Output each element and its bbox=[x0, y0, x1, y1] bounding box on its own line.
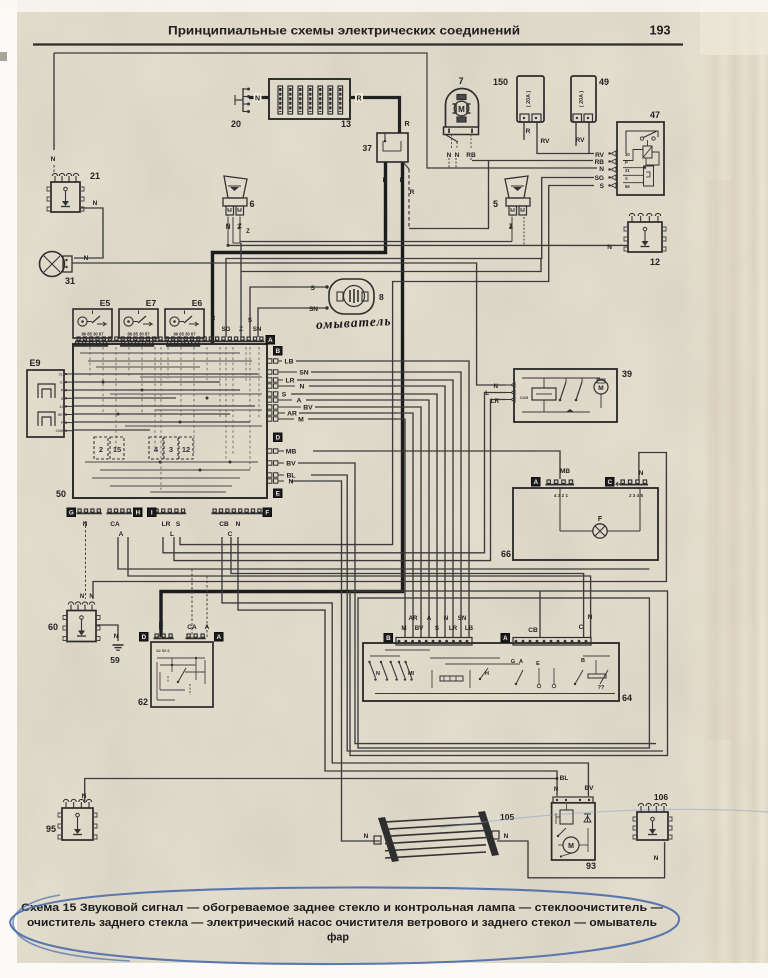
svg-text:N: N bbox=[226, 224, 230, 230]
marker D right bbox=[274, 433, 283, 442]
svg-text:SG: SG bbox=[222, 326, 231, 333]
svg-text:COM: COM bbox=[56, 429, 64, 433]
svg-text:AR: AR bbox=[287, 411, 297, 418]
wire loop inner around panel 64 bbox=[358, 598, 649, 748]
wire RV fuses to relay unit 47 bbox=[524, 122, 605, 159]
marker H bbox=[134, 508, 143, 517]
header title bbox=[168, 24, 520, 38]
svg-text:6: 6 bbox=[249, 199, 254, 209]
svg-text:39: 39 bbox=[622, 369, 632, 379]
svg-text:B: B bbox=[386, 635, 391, 642]
svg-text:Z: Z bbox=[509, 224, 513, 230]
svg-text:BV: BV bbox=[286, 461, 296, 468]
wire BV box 50 to panel 64 bbox=[315, 407, 421, 637]
svg-text:COM: COM bbox=[520, 396, 528, 400]
svg-text:62 52 6: 62 52 6 bbox=[156, 648, 170, 653]
wire N lamp 31 to wiper unit 39 bbox=[72, 255, 506, 390]
wire N box 50 to module 60 dashed bbox=[85, 521, 87, 599]
box 50 internal wiring bbox=[73, 347, 262, 492]
heater 66 N connector bbox=[616, 480, 648, 498]
svg-text:S: S bbox=[176, 521, 181, 528]
svg-text:31: 31 bbox=[65, 276, 75, 286]
svg-text:N: N bbox=[599, 166, 604, 173]
svg-text:N: N bbox=[255, 96, 260, 103]
svg-text:RV: RV bbox=[576, 137, 586, 144]
marker C heater bbox=[606, 478, 615, 487]
svg-text:60: 60 bbox=[48, 622, 58, 632]
svg-text:A: A bbox=[268, 337, 273, 344]
svg-text:M: M bbox=[568, 843, 574, 850]
wire N module 21 to lamp 31 bbox=[74, 200, 103, 258]
svg-text:56: 56 bbox=[625, 184, 630, 189]
wire R thick relay 37 to unit 62 bbox=[159, 162, 415, 637]
svg-text:M: M bbox=[598, 385, 603, 392]
wire BV box 50 down along panel 64 bbox=[298, 463, 656, 792]
svg-text:R: R bbox=[383, 177, 388, 184]
svg-text:15: 15 bbox=[113, 445, 121, 454]
wire loop outer around panel 64 bbox=[350, 591, 668, 756]
svg-text:21: 21 bbox=[90, 171, 100, 181]
switch 5 bbox=[493, 176, 530, 230]
svg-text:N: N bbox=[607, 244, 612, 251]
svg-text:193: 193 bbox=[649, 24, 670, 38]
svg-text:B: B bbox=[276, 348, 281, 355]
svg-text:CA: CA bbox=[187, 624, 197, 631]
svg-text:105: 105 bbox=[500, 812, 514, 822]
svg-text:E9: E9 bbox=[29, 358, 40, 368]
svg-text:M: M bbox=[458, 105, 465, 114]
svg-text:N: N bbox=[89, 594, 93, 600]
horn 7 bbox=[444, 76, 479, 159]
svg-text:MI: MI bbox=[408, 671, 415, 677]
panel 64 internals bbox=[368, 650, 615, 694]
svg-text:66: 66 bbox=[501, 549, 511, 559]
fuse 49 bbox=[571, 76, 609, 122]
wire N from connector 20 to fusebox 13 bbox=[249, 93, 269, 103]
svg-text:Принципиальные схемы электриче: Принципиальные схемы электрических соеди… bbox=[168, 24, 520, 38]
panel 64 bbox=[363, 643, 632, 703]
relay E7 bbox=[119, 298, 158, 346]
svg-text:8: 8 bbox=[379, 292, 384, 302]
handwritten note омыватель bbox=[316, 313, 392, 332]
svg-text:H: H bbox=[485, 671, 489, 677]
svg-text:IL: IL bbox=[60, 381, 63, 385]
svg-text:BV: BV bbox=[415, 625, 424, 632]
module 21 bbox=[47, 171, 100, 212]
svg-text:SN: SN bbox=[458, 615, 467, 622]
svg-text:12: 12 bbox=[650, 257, 660, 267]
svg-text:E5: E5 bbox=[100, 298, 111, 308]
svg-text:P: P bbox=[625, 160, 628, 165]
svg-text:LR: LR bbox=[491, 398, 500, 405]
svg-text:F: F bbox=[265, 510, 269, 517]
wire SN washer pump 8 to box 50 bbox=[239, 306, 327, 337]
wire MB box 50 to heater unit 66 bbox=[313, 451, 570, 479]
svg-text:LR: LR bbox=[285, 378, 294, 385]
svg-text:3: 3 bbox=[169, 445, 173, 454]
wire SG relay unit 47 to control box 50 bbox=[222, 175, 604, 337]
svg-text:37: 37 bbox=[363, 143, 373, 153]
ground 59 bbox=[110, 645, 123, 665]
wire C box 50 to panel 64 bbox=[231, 537, 584, 637]
svg-text:31: 31 bbox=[59, 405, 63, 409]
lamp 31 bbox=[40, 252, 76, 287]
svg-text:Z: Z bbox=[238, 224, 242, 230]
wire S relay unit 47 to control box 50 bbox=[180, 183, 605, 545]
svg-text:N: N bbox=[236, 521, 241, 528]
svg-text:150: 150 bbox=[493, 77, 508, 87]
relay 37 bbox=[363, 133, 408, 162]
svg-text:CL: CL bbox=[59, 373, 63, 377]
marker B panel 64 bbox=[384, 634, 393, 643]
svg-text:93: 93 bbox=[586, 861, 596, 871]
svg-text:L: L bbox=[485, 390, 489, 397]
module 95 bbox=[46, 799, 97, 840]
relay E5 bbox=[73, 298, 112, 346]
svg-text:S: S bbox=[61, 397, 63, 401]
wire LR box 50 to panel 64 bbox=[297, 380, 453, 637]
svg-text:MB: MB bbox=[286, 449, 297, 456]
wire N top loop from page top to relay unit 47 bbox=[54, 53, 604, 173]
washer pump 8 bbox=[325, 279, 384, 314]
svg-text:D: D bbox=[276, 435, 281, 442]
svg-text:31: 31 bbox=[625, 168, 630, 173]
svg-text:LR: LR bbox=[162, 521, 171, 528]
svg-text:N: N bbox=[447, 152, 452, 159]
unit 62 bbox=[138, 624, 213, 707]
wire Z switches 6 and 5 bbox=[226, 217, 513, 337]
wire A box 50 to panel 64 bbox=[306, 400, 429, 637]
svg-text:N: N bbox=[93, 200, 98, 207]
wire N module 12 bbox=[613, 244, 628, 246]
svg-text:N: N bbox=[83, 521, 88, 528]
wire CB vertical into panel 64 bbox=[528, 591, 592, 637]
svg-text:N: N bbox=[455, 152, 460, 159]
svg-text:A: A bbox=[427, 615, 432, 622]
svg-text:SN: SN bbox=[253, 326, 262, 333]
svg-text:A: A bbox=[534, 479, 539, 486]
svg-text:N: N bbox=[300, 384, 305, 391]
wiper unit 39 bbox=[506, 369, 632, 422]
svg-text:L: L bbox=[170, 531, 174, 538]
svg-text:2 3 4 5: 2 3 4 5 bbox=[629, 493, 643, 498]
lamp F inside heater 66 bbox=[560, 487, 640, 538]
svg-text:C: C bbox=[579, 624, 584, 631]
connector E9 bbox=[27, 358, 73, 437]
svg-text:R: R bbox=[404, 121, 409, 128]
svg-text:R: R bbox=[400, 177, 405, 184]
svg-text:N: N bbox=[80, 594, 84, 600]
svg-text:S: S bbox=[282, 392, 287, 399]
wire R relay 37 dashed branch bbox=[403, 162, 409, 229]
wire S box 50 to panel 64 bbox=[291, 394, 437, 637]
caption text bbox=[21, 902, 663, 944]
svg-text:106: 106 bbox=[654, 792, 668, 802]
fuse box 13 bbox=[269, 79, 351, 129]
marker A panel 64 bbox=[501, 634, 510, 643]
svg-text:N: N bbox=[639, 470, 644, 477]
svg-text:30: 30 bbox=[625, 152, 630, 157]
hand-drawn blue ellipse bbox=[10, 809, 768, 964]
svg-text:Z: Z bbox=[246, 229, 250, 235]
svg-text:59: 59 bbox=[110, 655, 120, 665]
svg-text:S: S bbox=[600, 183, 605, 190]
svg-text:BL: BL bbox=[560, 775, 569, 782]
svg-text:N: N bbox=[289, 479, 294, 486]
module 12 bbox=[624, 213, 666, 267]
svg-text:A: A bbox=[297, 398, 302, 405]
svg-text:N: N bbox=[494, 383, 499, 390]
svg-text:AR: AR bbox=[409, 615, 418, 622]
svg-text:F: F bbox=[598, 516, 603, 523]
marker A bbox=[266, 336, 275, 345]
svg-text:RB: RB bbox=[466, 152, 476, 159]
svg-text:Схема 15 Звуковой сигнал — обо: Схема 15 Звуковой сигнал — обогреваемое … bbox=[21, 902, 663, 914]
svg-text:CA: CA bbox=[110, 521, 120, 528]
wire LR wiper 39 to box 50 bottom bbox=[174, 398, 506, 561]
marker E right bbox=[274, 489, 283, 498]
svg-text:N: N bbox=[588, 614, 593, 621]
svg-text:SN: SN bbox=[309, 306, 318, 313]
header rule bbox=[33, 43, 683, 45]
svg-text:INT: INT bbox=[58, 413, 63, 417]
svg-text:LB: LB bbox=[465, 625, 474, 632]
svg-text:A: A bbox=[119, 531, 124, 538]
svg-text:RB: RB bbox=[595, 159, 605, 166]
svg-text:13: 13 bbox=[341, 119, 351, 129]
wire AR box 50 to panel 64 bbox=[299, 413, 413, 637]
wire S washer pump 8 bbox=[248, 285, 327, 337]
module 106 bbox=[633, 792, 672, 840]
svg-text:N: N bbox=[51, 156, 56, 163]
svg-text:S: S bbox=[248, 317, 252, 324]
wire LB box 50 to panel 64 bbox=[296, 361, 469, 637]
wire N switch 6 to module 12 bbox=[227, 217, 614, 251]
svg-text:BV: BV bbox=[584, 785, 594, 792]
box 50 right edge pins bbox=[268, 359, 314, 486]
svg-text:86 85 30 87: 86 85 30 87 bbox=[81, 332, 104, 337]
panel 64 connector B bbox=[396, 638, 472, 646]
panel 64 connector A bbox=[513, 638, 591, 646]
wire N module 60 to ground 59 bbox=[96, 625, 119, 641]
heater unit 66 bbox=[501, 488, 658, 560]
svg-text:N: N bbox=[376, 671, 380, 677]
panel 64 labels bbox=[401, 615, 473, 632]
svg-text:фар: фар bbox=[327, 932, 349, 944]
svg-text:R: R bbox=[211, 315, 216, 322]
left white margin bbox=[0, 0, 17, 978]
svg-text:??: ?? bbox=[598, 685, 605, 691]
svg-text:MB: MB bbox=[560, 468, 570, 475]
svg-text:A: A bbox=[205, 624, 210, 631]
wire N module 95 to relay 93 bbox=[82, 777, 559, 803]
svg-text:A: A bbox=[503, 635, 508, 642]
svg-text:LB: LB bbox=[284, 359, 293, 366]
wire N vertical to module 21 bbox=[51, 53, 56, 172]
svg-text:C: C bbox=[608, 479, 613, 486]
svg-text:I: I bbox=[151, 510, 153, 517]
relay unit 47 bbox=[608, 110, 664, 195]
marker I bbox=[148, 508, 157, 517]
svg-text:G: G bbox=[69, 510, 74, 517]
svg-text:E6: E6 bbox=[192, 298, 203, 308]
svg-text:5: 5 bbox=[493, 199, 498, 209]
marker A heater bbox=[532, 478, 541, 487]
svg-text:D: D bbox=[142, 634, 147, 641]
wire R thick relay 37 to relay rail bbox=[211, 162, 388, 343]
svg-text:CB: CB bbox=[528, 627, 538, 634]
svg-text:S: S bbox=[311, 285, 316, 292]
svg-text:12: 12 bbox=[182, 445, 190, 454]
marker D unit 62 bbox=[140, 633, 149, 642]
svg-text:95: 95 bbox=[46, 824, 56, 834]
svg-text:86 85 30 87: 86 85 30 87 bbox=[127, 332, 150, 337]
wire Z branch lower bbox=[241, 259, 541, 272]
relay pump 93 bbox=[552, 797, 596, 871]
marker G bbox=[67, 508, 76, 517]
wire N pump 105 to module 106 bbox=[497, 833, 665, 878]
wire A box 50 to panel 64 N pin bbox=[128, 537, 591, 637]
svg-text:E7: E7 bbox=[146, 298, 157, 308]
wire L wiper 39 to box 50 bottom bbox=[163, 390, 506, 553]
svg-text:50: 50 bbox=[56, 489, 66, 499]
svg-text:7: 7 bbox=[458, 76, 463, 86]
fuse 150 bbox=[493, 76, 544, 122]
svg-text:A: A bbox=[519, 659, 523, 665]
svg-text:N: N bbox=[504, 833, 509, 840]
svg-text:M: M bbox=[298, 417, 304, 424]
svg-text:R: R bbox=[356, 96, 361, 103]
svg-text:49: 49 bbox=[599, 77, 609, 87]
wire N box 50 down to relay 93 bbox=[238, 537, 557, 796]
svg-text:62: 62 bbox=[138, 697, 148, 707]
svg-text:R: R bbox=[410, 189, 415, 196]
pump 105 bbox=[374, 811, 514, 862]
svg-text:RV: RV bbox=[541, 138, 551, 145]
svg-text:R: R bbox=[526, 128, 531, 135]
svg-text:H: H bbox=[136, 510, 141, 517]
wire RB horn to relay unit 47 bbox=[409, 158, 604, 229]
svg-text:CB: CB bbox=[219, 521, 229, 528]
svg-text:LR: LR bbox=[449, 625, 458, 632]
svg-text:4 3 2 1: 4 3 2 1 bbox=[554, 493, 568, 498]
svg-text:N: N bbox=[554, 787, 558, 793]
marker B bbox=[274, 347, 283, 356]
svg-text:( 20A ): ( 20A ) bbox=[579, 91, 585, 107]
relay E6 bbox=[165, 298, 204, 346]
svg-text:A: A bbox=[217, 634, 222, 641]
svg-text:20: 20 bbox=[231, 119, 241, 129]
control box 50 bbox=[56, 337, 267, 499]
wire N box 50 to pump 105 bbox=[291, 481, 380, 841]
svg-text:C: C bbox=[228, 531, 233, 538]
wire BL box 50 down along panel 64 bbox=[311, 475, 663, 793]
marker A unit 62 bbox=[215, 633, 224, 642]
page number 193 bbox=[649, 24, 670, 38]
box 50 bottom connectors bbox=[77, 509, 263, 538]
svg-text:N: N bbox=[114, 633, 119, 640]
svg-text:R: R bbox=[159, 624, 164, 631]
connector 20 bbox=[231, 88, 250, 130]
wire M box 50 to panel 64 bbox=[308, 419, 405, 637]
wire R fusebox 13 to relay 37 bbox=[350, 93, 410, 133]
wire N module 60 to heater 66 N connector bbox=[80, 453, 667, 601]
marker F bbox=[263, 508, 272, 517]
heater 66 MB connector bbox=[546, 480, 575, 498]
svg-text:RV: RV bbox=[595, 152, 605, 159]
svg-text:64: 64 bbox=[622, 693, 632, 703]
svg-text:N: N bbox=[364, 833, 369, 840]
svg-text:SN: SN bbox=[299, 370, 309, 377]
switch 6 bbox=[223, 176, 255, 230]
svg-text:очиститель заднего стекла — эл: очиститель заднего стекла — электрически… bbox=[27, 917, 657, 929]
wire SN box 50 to panel 64 bbox=[311, 372, 461, 637]
svg-text:B: B bbox=[581, 658, 585, 664]
svg-text:47: 47 bbox=[650, 110, 660, 120]
svg-text:N: N bbox=[444, 615, 449, 622]
svg-text:E: E bbox=[276, 491, 280, 498]
svg-text:( 20A ): ( 20A ) bbox=[526, 91, 532, 107]
svg-text:N: N bbox=[82, 793, 87, 800]
svg-text:S: S bbox=[435, 625, 439, 632]
wire N box 50 to panel 64 bbox=[309, 386, 445, 637]
svg-text:86 85 30 87: 86 85 30 87 bbox=[173, 332, 196, 337]
wire CA box 50 to unit 62 bbox=[118, 537, 649, 637]
svg-text:N: N bbox=[654, 855, 659, 862]
wire CB box 50 down to relay 93 BV bbox=[222, 537, 588, 796]
svg-text:M: M bbox=[401, 625, 406, 632]
svg-text:SG: SG bbox=[595, 175, 604, 182]
svg-text:BV: BV bbox=[303, 405, 313, 412]
module 60 bbox=[48, 602, 100, 642]
svg-text:2: 2 bbox=[99, 445, 103, 454]
svg-text:E: E bbox=[536, 661, 540, 667]
svg-text:S: S bbox=[625, 176, 628, 181]
svg-text:G: G bbox=[511, 659, 515, 665]
